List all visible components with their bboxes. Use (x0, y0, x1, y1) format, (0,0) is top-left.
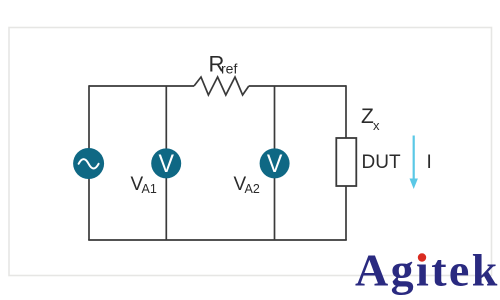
voltmeter U2 (V) (260, 148, 290, 178)
svg-text:x: x (373, 118, 380, 133)
AC source (73, 148, 104, 179)
svg-text:A1: A1 (142, 182, 157, 196)
wire: right branch (345, 85, 347, 240)
wire: V_A2 branch (274, 86, 276, 240)
svg-text:DUT: DUT (362, 152, 401, 173)
svg-text:V: V (267, 150, 283, 178)
label R_ref (209, 52, 238, 77)
wire: left branch (88, 85, 90, 240)
label V_A1 (131, 174, 157, 196)
svg-text:Agıtek: Agıtek (355, 245, 500, 296)
svg-text:V: V (158, 150, 174, 178)
svg-text:ref: ref (221, 61, 237, 77)
label Z_x (361, 105, 380, 133)
DUT body (336, 138, 356, 186)
Agitek logo (355, 245, 500, 296)
voltmeter U1 (V) (151, 148, 181, 178)
wire: top rail right of resistor (249, 85, 346, 87)
wire: top rail left of resistor (89, 85, 194, 87)
svg-text:I: I (427, 152, 432, 173)
resistor R1 zigzag (194, 77, 249, 95)
wire: V_A1 branch (165, 86, 167, 240)
logo i red dot (418, 253, 426, 261)
svg-text:A2: A2 (245, 182, 260, 196)
wire: bottom rail (88, 239, 347, 241)
label V_A2 (234, 174, 260, 196)
current arrow I (410, 136, 418, 190)
